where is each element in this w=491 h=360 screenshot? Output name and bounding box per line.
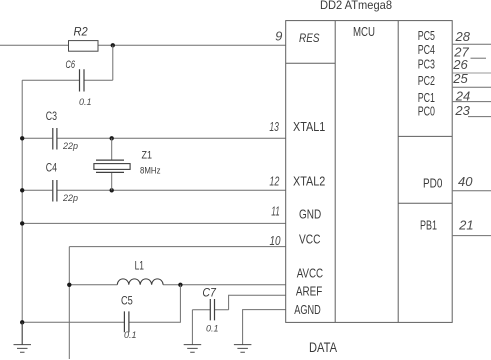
svg-text:PC3: PC3 xyxy=(418,58,435,72)
svg-text:24: 24 xyxy=(455,88,470,103)
wire XTAL2 net xyxy=(112,189,286,191)
wire C5 branch xyxy=(22,285,180,323)
wire GND net xyxy=(22,222,286,224)
svg-text:PC0: PC0 xyxy=(418,105,435,119)
svg-text:11: 11 xyxy=(271,204,280,219)
wire pin40 xyxy=(453,190,491,192)
svg-text:26: 26 xyxy=(452,57,468,72)
node junction R2-C6 xyxy=(111,43,115,80)
svg-text:C3: C3 xyxy=(46,109,57,123)
wire pin23 xyxy=(468,116,491,118)
svg-text:C5: C5 xyxy=(121,294,133,308)
svg-text:12: 12 xyxy=(269,174,280,189)
svg-text:23: 23 xyxy=(454,103,470,118)
wire pin26 xyxy=(453,72,491,74)
svg-text:L1: L1 xyxy=(135,258,145,272)
svg-text:C6: C6 xyxy=(66,59,76,71)
svg-text:VCC: VCC xyxy=(299,233,320,247)
wire pin27 xyxy=(471,57,487,59)
wire left rail xyxy=(21,80,23,344)
wire VCC net xyxy=(69,247,285,359)
capacitor C5 xyxy=(121,294,137,340)
svg-text:XTAL2: XTAL2 xyxy=(293,174,325,188)
svg-text:0.1: 0.1 xyxy=(124,330,137,340)
capacitor C6 xyxy=(22,59,113,107)
svg-text:AGND: AGND xyxy=(294,303,321,317)
svg-text:40: 40 xyxy=(458,174,473,189)
svg-text:9: 9 xyxy=(275,28,282,43)
svg-text:Z1: Z1 xyxy=(142,149,153,161)
crystal Z1 xyxy=(94,138,161,190)
svg-text:DATA: DATA xyxy=(309,340,337,355)
svg-text:PC5: PC5 xyxy=(418,29,435,43)
svg-text:8MHz: 8MHz xyxy=(140,165,161,175)
svg-text:AREF: AREF xyxy=(296,285,323,299)
node C4 rail xyxy=(20,188,24,192)
wire pin24 xyxy=(453,101,491,103)
svg-text:PB1: PB1 xyxy=(420,219,437,233)
svg-text:22p: 22p xyxy=(62,193,78,203)
wire pin28 xyxy=(453,43,491,45)
svg-text:R2: R2 xyxy=(74,25,88,39)
svg-text:28: 28 xyxy=(455,29,471,44)
svg-text:PC4: PC4 xyxy=(418,43,435,57)
node XTAL1 crystal xyxy=(110,136,114,140)
svg-text:13: 13 xyxy=(269,119,279,134)
svg-text:PC2: PC2 xyxy=(418,74,435,88)
svg-text:DD2 ATmega8: DD2 ATmega8 xyxy=(320,0,392,12)
node C5 rail xyxy=(20,320,24,324)
node XTAL2 crystal xyxy=(110,188,114,192)
node L1-C5 xyxy=(178,283,182,287)
svg-text:PD0: PD0 xyxy=(423,177,442,191)
svg-text:C4: C4 xyxy=(46,160,57,174)
wire AGND net xyxy=(243,310,286,345)
wire pin25 xyxy=(453,86,491,88)
wire XTAL1 net xyxy=(112,137,286,139)
IC DD2 ATmega8 box xyxy=(286,21,453,323)
svg-text:MCU: MCU xyxy=(353,25,375,39)
ground main xyxy=(14,322,32,352)
svg-text:10: 10 xyxy=(270,233,282,248)
svg-text:GND: GND xyxy=(299,208,321,222)
ground C7 xyxy=(184,345,202,353)
node GND rail xyxy=(20,221,24,225)
capacitor C4 xyxy=(22,160,112,203)
ground AGND xyxy=(234,345,252,353)
svg-text:25: 25 xyxy=(452,71,468,86)
node C3 rail xyxy=(20,136,24,140)
svg-text:22p: 22p xyxy=(62,141,78,151)
node VCC-AVCC xyxy=(67,283,71,287)
svg-text:0.1: 0.1 xyxy=(206,324,219,334)
wire AREF net xyxy=(229,295,286,309)
svg-text:C7: C7 xyxy=(202,286,217,300)
wire RES net left xyxy=(0,44,286,46)
svg-text:PC1: PC1 xyxy=(418,91,435,105)
svg-text:RES: RES xyxy=(299,31,320,45)
wire C7 to ground xyxy=(191,310,193,345)
capacitor C3 xyxy=(22,109,112,151)
svg-text:XTAL1: XTAL1 xyxy=(293,120,325,134)
svg-text:AVCC: AVCC xyxy=(297,266,323,280)
svg-text:21: 21 xyxy=(458,217,473,232)
capacitor C7 xyxy=(192,286,228,334)
wire pin21 xyxy=(453,235,491,237)
resistor R2 xyxy=(69,25,99,52)
svg-text:0.1: 0.1 xyxy=(79,97,92,107)
inductor L1 xyxy=(69,258,285,285)
